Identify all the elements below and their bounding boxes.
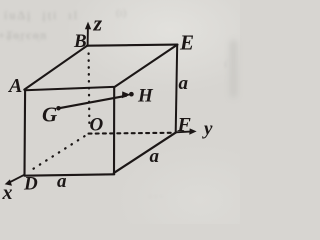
svg-text:x: x bbox=[2, 182, 13, 204]
svg-text:y: y bbox=[202, 119, 213, 140]
y axis shaft bbox=[176, 131, 191, 134]
edge C-F (bottom right) bbox=[114, 133, 176, 173]
vector GH arrowhead bbox=[122, 91, 131, 98]
edge C'-C (front-right vertical) bbox=[113, 88, 115, 174]
vector G to H line bbox=[59, 96, 127, 109]
faint smudge bottom-right bbox=[150, 186, 165, 198]
svg-text:F: F bbox=[177, 114, 192, 136]
edge E-F (right vertical) bbox=[176, 45, 178, 133]
svg-text:O: O bbox=[90, 115, 104, 136]
svg-text:a: a bbox=[150, 146, 160, 167]
svg-text:B: B bbox=[73, 31, 87, 52]
hidden edge O-F dashed (on y axis) bbox=[89, 132, 173, 135]
edge E-C' (top face right) bbox=[114, 45, 177, 88]
hidden edge O-D dotted (on x axis) bbox=[30, 136, 85, 171]
svg-text:A: A bbox=[7, 75, 22, 97]
point G dot bbox=[56, 106, 61, 111]
svg-text:a: a bbox=[57, 171, 67, 192]
hidden edge O-B dotted (on z axis) bbox=[87, 54, 90, 129]
svg-text:D: D bbox=[23, 174, 38, 195]
z axis shaft bbox=[87, 29, 89, 46]
faint vertical smudge right edge bbox=[230, 40, 237, 98]
edge A-B (top face left) bbox=[24, 46, 87, 90]
edge A-C' (top face front) bbox=[25, 87, 114, 90]
x axis arrowhead bbox=[5, 179, 12, 185]
faint bleed-through mark top-center bbox=[116, 7, 126, 19]
y axis arrowhead bbox=[189, 128, 196, 134]
x axis shaft bbox=[11, 175, 25, 182]
faint bleed-through text top-left line1 bbox=[4, 8, 79, 23]
faint bleed-through text top-left line2 bbox=[0, 28, 48, 43]
point H dot bbox=[129, 92, 134, 97]
svg-text:a: a bbox=[179, 73, 189, 94]
edge D-C (bottom front) bbox=[25, 174, 115, 175]
faint bleed-through mark right edge bbox=[224, 58, 227, 70]
svg-text:G: G bbox=[42, 103, 57, 127]
z axis arrowhead bbox=[85, 22, 91, 30]
edge A-D (front-left vertical) bbox=[23, 90, 26, 175]
svg-text:E: E bbox=[179, 31, 194, 55]
svg-text:z: z bbox=[93, 11, 103, 36]
svg-text:H: H bbox=[137, 86, 154, 107]
edge B-E (top face back) bbox=[87, 45, 177, 46]
